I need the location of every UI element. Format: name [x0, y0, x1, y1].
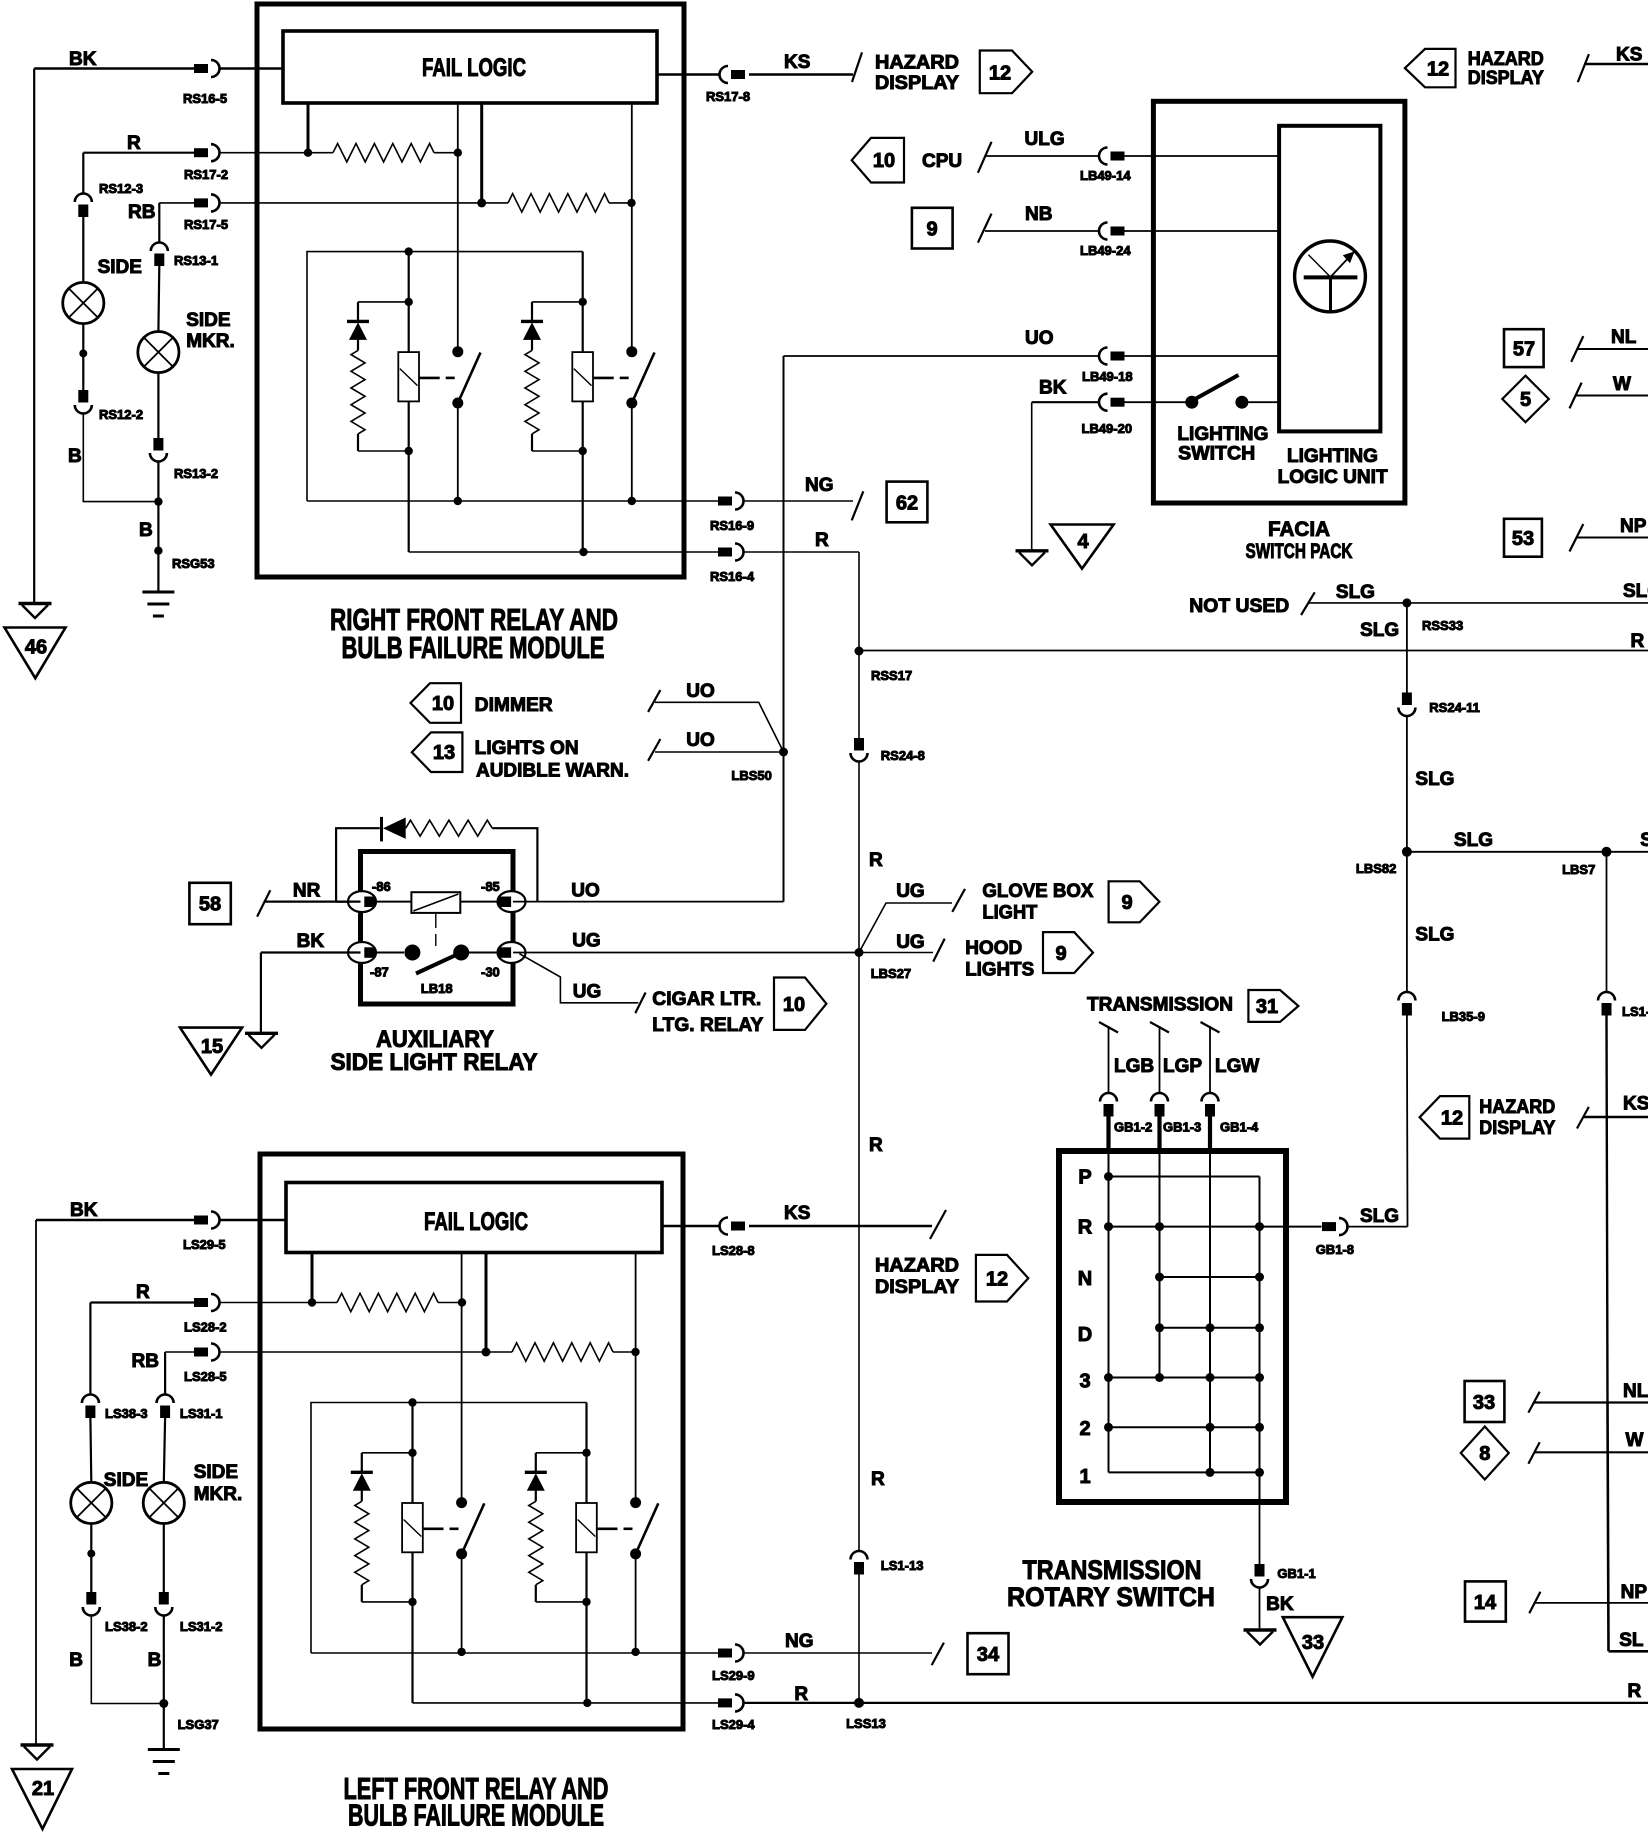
- svg-text:NB: NB: [1025, 204, 1052, 225]
- flag 12 (hazard display, left-pointing, top right): [1405, 49, 1456, 87]
- svg-text:LS28-5: LS28-5: [184, 1369, 227, 1384]
- svg-text:LS31-1: LS31-1: [180, 1406, 223, 1421]
- svg-text:33: 33: [1473, 1392, 1495, 1414]
- node (R1 right junction): [454, 149, 462, 157]
- svg-text:-30: -30: [481, 965, 500, 980]
- svg-text:SWITCH: SWITCH: [1178, 444, 1255, 465]
- connector RS17-5: [194, 194, 220, 211]
- svg-text:12: 12: [1441, 1108, 1463, 1130]
- node RSS17: [855, 647, 864, 656]
- svg-text:GB1-4: GB1-4: [1220, 1120, 1259, 1135]
- svg-text:GB1-8: GB1-8: [1316, 1242, 1354, 1257]
- svg-text:RS24-11: RS24-11: [1429, 700, 1480, 715]
- svg-text:10: 10: [432, 693, 454, 715]
- svg-text:62: 62: [896, 493, 918, 515]
- wire SL corner (to right edge): [1609, 1650, 1648, 1653]
- svg-text:GB1-2: GB1-2: [1114, 1120, 1152, 1135]
- row N: [1160, 1276, 1260, 1278]
- wire W (to right edge): [1576, 395, 1648, 397]
- connector LS29-5: [194, 1212, 220, 1229]
- ground triangle 33: [1283, 1617, 1343, 1677]
- ground triangle 21: [12, 1769, 72, 1829]
- svg-text:KS: KS: [1623, 1094, 1648, 1115]
- wire R trunk (RS24-8 to LBS27): [858, 762, 860, 953]
- svg-text:BULB FAILURE MODULE: BULB FAILURE MODULE: [342, 630, 605, 665]
- svg-text:CPU: CPU: [922, 151, 962, 172]
- relay switch contacts (LB18): [376, 952, 404, 954]
- connector RS12-3: [75, 194, 92, 218]
- FAIL LOGIC pin 3 (to resistor R2): [480, 103, 483, 203]
- wire NR: [264, 900, 361, 902]
- node RSG53: [154, 547, 162, 555]
- ground chevron (bottom BK): [21, 1745, 54, 1760]
- wire below SIDE MKR lamp (bottom): [163, 1524, 165, 1593]
- svg-text:FACIA: FACIA: [1268, 518, 1330, 541]
- svg-text:NOT USED: NOT USED: [1189, 596, 1289, 617]
- node (trunk1 on inner box top, bottom module): [408, 1398, 416, 1406]
- svg-text:R: R: [871, 1469, 885, 1490]
- relay box LB18 (auxiliary side light relay): [361, 852, 514, 1005]
- svg-text:W: W: [1613, 374, 1631, 395]
- svg-text:SIDE: SIDE: [104, 1470, 148, 1491]
- wire LGP: [1159, 1026, 1161, 1094]
- svg-text:12: 12: [1427, 59, 1449, 81]
- svg-text:R: R: [869, 850, 883, 871]
- slash (lights-on UO): [648, 739, 660, 761]
- node RSS33: [1402, 598, 1411, 607]
- connector RS13-1: [151, 243, 168, 267]
- svg-text:KS: KS: [784, 1203, 810, 1224]
- wire RB down to LS31-1: [164, 1352, 166, 1395]
- box 58: [189, 883, 230, 924]
- svg-text:SIDE LIGHT RELAY: SIDE LIGHT RELAY: [331, 1049, 538, 1076]
- connector LS1-13: [851, 1551, 868, 1575]
- earth ground (LSG37): [148, 1750, 180, 1774]
- svg-text:NG: NG: [805, 475, 834, 496]
- box 9 (NB source): [912, 208, 953, 249]
- svg-text:21: 21: [32, 1778, 54, 1800]
- lamp SIDE (left front): [71, 1482, 112, 1523]
- svg-text:W: W: [1626, 1430, 1644, 1451]
- svg-text:R: R: [1631, 631, 1645, 652]
- connector GB1-3: [1151, 1093, 1168, 1117]
- slash (KS continuation): [852, 52, 862, 82]
- node LBS27: [855, 948, 864, 957]
- wire to SIDE MKR lamp (bottom): [164, 1418, 165, 1482]
- wire NP (to right edge): [1577, 537, 1648, 539]
- svg-text:HAZARD: HAZARD: [1479, 1097, 1555, 1118]
- LIGHTING LOGIC UNIT box: [1279, 126, 1380, 432]
- svg-text:-86: -86: [372, 879, 391, 894]
- node (trunk1 on inner box top): [405, 247, 413, 255]
- wire UG (aux relay output): [513, 952, 859, 954]
- node below SIDE lamp: [79, 349, 87, 357]
- svg-text:13: 13: [433, 742, 455, 764]
- svg-text:B: B: [148, 1650, 162, 1671]
- wire BK (bottom module input): [36, 1219, 194, 1222]
- lighting switch contact b: [1235, 396, 1248, 409]
- svg-text:FAIL LOGIC: FAIL LOGIC: [422, 54, 526, 82]
- connector LS38-2: [83, 1592, 100, 1616]
- diamond 5: [1502, 376, 1549, 423]
- wire RB down to RS13-1: [158, 203, 160, 243]
- svg-text:-85: -85: [481, 879, 500, 894]
- svg-text:-87: -87: [370, 965, 389, 980]
- svg-text:LBS27: LBS27: [871, 966, 911, 981]
- svg-text:LOGIC UNIT: LOGIC UNIT: [1278, 467, 1388, 488]
- connector LS31-1: [157, 1395, 174, 1419]
- svg-text:R: R: [815, 530, 829, 551]
- svg-text:10: 10: [873, 150, 895, 172]
- svg-text:8: 8: [1479, 1443, 1490, 1465]
- svg-text:LGW: LGW: [1215, 1056, 1259, 1077]
- svg-text:ULG: ULG: [1025, 129, 1065, 150]
- relay K4 with diode and resistor (bottom module): [525, 1254, 659, 1703]
- connector RS17-8: [720, 66, 746, 83]
- node (R2 right junction): [627, 199, 635, 207]
- svg-text:34: 34: [977, 1644, 1000, 1666]
- node LBS7: [1602, 847, 1612, 857]
- svg-text:UO: UO: [686, 681, 715, 702]
- slash (NG continuation): [852, 491, 864, 520]
- wire KS (bottom module output): [662, 1225, 720, 1227]
- slash (KS bottom): [930, 1210, 946, 1239]
- connector GB1-4: [1202, 1093, 1219, 1117]
- svg-text:RS16-4: RS16-4: [710, 569, 755, 584]
- svg-text:BK: BK: [1266, 1594, 1294, 1615]
- svg-text:LS28-8: LS28-8: [712, 1243, 755, 1258]
- connector RS24-11: [1398, 693, 1415, 717]
- box 33: [1465, 1381, 1505, 1422]
- svg-text:15: 15: [201, 1036, 223, 1058]
- wire UO into facia pack: [784, 355, 1101, 357]
- wire NG (to 62): [743, 500, 853, 502]
- wire R (RS16-4 corner down): [858, 552, 860, 651]
- connector LS1-14 (cut at edge): [1598, 992, 1615, 1016]
- connector RS16-5: [194, 60, 220, 77]
- pin oval -85: [498, 891, 526, 912]
- svg-text:LS1-14: LS1-14: [1622, 1004, 1648, 1019]
- wire UG branch (glove box light): [859, 903, 952, 953]
- svg-text:B: B: [69, 1650, 83, 1671]
- svg-text:LBS7: LBS7: [1562, 862, 1595, 877]
- svg-text:LBS50: LBS50: [731, 768, 771, 783]
- connector LS29-9: [718, 1645, 744, 1662]
- node (R4 right junction): [631, 1348, 639, 1356]
- wire LGW: [1209, 1026, 1211, 1094]
- grid vertical v1 (LGB): [1108, 1152, 1110, 1472]
- lamp SIDE (right front): [63, 282, 104, 323]
- node (R3 right junction): [458, 1298, 466, 1306]
- slash (LGW): [1201, 1022, 1220, 1033]
- slash (dimmer UO): [648, 690, 660, 712]
- wire KS (top module output): [657, 73, 720, 75]
- wire to SIDE MKR lamp: [157, 266, 160, 332]
- slash (W bottom): [1528, 1442, 1539, 1464]
- FAIL LOGIC pin 1 (to resistor R1): [307, 103, 310, 153]
- svg-text:DISPLAY: DISPLAY: [875, 73, 959, 94]
- wire KS (top right): [1584, 63, 1648, 65]
- connector LS28-5: [194, 1344, 220, 1361]
- svg-text:10: 10: [783, 994, 805, 1016]
- svg-text:RSS17: RSS17: [871, 668, 912, 683]
- svg-text:SL: SL: [1619, 1630, 1644, 1651]
- svg-text:RS24-8: RS24-8: [881, 748, 925, 763]
- grid vertical v2 (LGP): [1159, 1152, 1161, 1378]
- svg-text:BK: BK: [70, 1200, 98, 1221]
- svg-text:BK: BK: [1039, 378, 1067, 399]
- svg-text:AUDIBLE WARN.: AUDIBLE WARN.: [476, 761, 629, 782]
- svg-text:HAZARD: HAZARD: [1468, 49, 1544, 70]
- svg-text:LIGHTS: LIGHTS: [965, 960, 1034, 981]
- ground triangle 15: [180, 1028, 242, 1075]
- resistor (aux relay loop): [406, 820, 493, 836]
- svg-text:SIDE: SIDE: [186, 310, 230, 331]
- svg-text:LS29-9: LS29-9: [712, 1668, 755, 1683]
- relay switch blade (LB18): [416, 952, 462, 973]
- svg-text:LS1-13: LS1-13: [881, 1558, 924, 1573]
- node (trunk2 on LS29-4 wire): [583, 1699, 591, 1707]
- wire BK down to ground 46: [33, 69, 35, 603]
- pin oval -86: [348, 891, 376, 912]
- FAIL LOGIC pin 1 (bottom, to resistor R3): [311, 1253, 314, 1303]
- wire B down and across: [83, 414, 158, 502]
- svg-text:SLG: SLG: [1623, 581, 1648, 602]
- node (R4 left junction): [482, 1348, 491, 1357]
- svg-text:UO: UO: [571, 881, 600, 902]
- relay coil (LB18): [376, 901, 412, 903]
- svg-text:R: R: [127, 133, 141, 154]
- diode (aux relay, pointing left): [380, 817, 383, 842]
- svg-text:LB18: LB18: [421, 981, 453, 996]
- connector LS31-2: [155, 1592, 172, 1616]
- grid vertical v3 (LGW): [1209, 1152, 1211, 1472]
- wire trunk1 corner to LS29-4: [413, 1702, 719, 1704]
- svg-text:R: R: [1628, 1681, 1642, 1702]
- svg-text:NL: NL: [1623, 1381, 1648, 1402]
- svg-text:KS: KS: [1616, 45, 1642, 66]
- diode-resistor loop wire (left side): [336, 828, 380, 901]
- svg-text:SLG: SLG: [1640, 830, 1648, 851]
- svg-text:RSG53: RSG53: [172, 556, 215, 571]
- wire R down to RS12-3: [82, 153, 84, 194]
- svg-text:9: 9: [1055, 943, 1066, 965]
- wire UO (dimmer row): [655, 702, 784, 752]
- slash (LGB): [1099, 1022, 1118, 1033]
- svg-text:R: R: [136, 1282, 150, 1303]
- svg-text:LSS13: LSS13: [846, 1716, 886, 1731]
- ground chevron (facia BK): [1016, 551, 1049, 566]
- svg-text:57: 57: [1513, 339, 1535, 361]
- FAIL LOGIC pin 3 (bottom, to resistor R4): [485, 1253, 488, 1353]
- wire below SIDE lamp: [82, 324, 84, 391]
- svg-text:12: 12: [989, 63, 1011, 85]
- resistor R4 (bulb-sense, bottom module): [486, 1351, 512, 1353]
- flag 12 (hazard display bottom, right-pointing): [976, 1255, 1028, 1302]
- wire to SIDE lamp (bottom): [89, 1418, 92, 1482]
- node (trunk2 on RS16-4 wire): [579, 548, 587, 556]
- flag 10 (cigar ltr ltg relay): [774, 978, 826, 1030]
- wire SLG vertical (RSS33 down to GB1-8 corner): [1406, 603, 1408, 693]
- svg-text:GB1-3: GB1-3: [1163, 1120, 1201, 1135]
- grid vertical v4 (common): [1259, 1177, 1261, 1506]
- svg-text:LB49-20: LB49-20: [1082, 421, 1133, 436]
- svg-text:MKR.: MKR.: [194, 1484, 243, 1505]
- row 3: [1109, 1377, 1260, 1379]
- wire R (top module input): [83, 152, 194, 154]
- wire trunk1 corner to RS16-4: [409, 551, 718, 553]
- svg-text:LIGHTING: LIGHTING: [1177, 424, 1268, 445]
- svg-text:14: 14: [1474, 1592, 1497, 1614]
- flag 31 (transmission): [1248, 990, 1298, 1022]
- wire to ground RSG53: [157, 462, 159, 592]
- transistor (lighting logic unit): [1295, 241, 1366, 312]
- wire SLG corner to GB1-8: [1346, 1226, 1408, 1228]
- svg-text:LB49-18: LB49-18: [1082, 369, 1133, 384]
- svg-text:LSG37: LSG37: [178, 1717, 219, 1732]
- svg-text:58: 58: [199, 894, 221, 916]
- flag 12 (hazard display, right-pointing): [980, 51, 1032, 94]
- slash (hood lights): [933, 939, 945, 962]
- svg-text:ROTARY SWITCH: ROTARY SWITCH: [1007, 1582, 1215, 1612]
- wire rail to LS29-9: [311, 1652, 718, 1654]
- slash (cigar ltr): [635, 993, 645, 1014]
- transmission rotary switch box: [1059, 1151, 1286, 1502]
- wire to ground LSG37: [163, 1616, 165, 1749]
- wire to SIDE lamp: [82, 217, 84, 282]
- svg-text:DIMMER: DIMMER: [475, 695, 553, 716]
- wire R trunk (RSS17 to RS24-8): [858, 651, 860, 738]
- svg-text:3: 3: [1079, 1371, 1090, 1393]
- svg-text:SWITCH PACK: SWITCH PACK: [1246, 540, 1353, 563]
- svg-text:RS16-9: RS16-9: [710, 518, 754, 533]
- wire UO (lights-on row): [655, 751, 784, 753]
- svg-text:SLG: SLG: [1454, 830, 1493, 851]
- svg-text:1: 1: [1079, 1466, 1090, 1488]
- wire BK (aux relay): [261, 951, 361, 953]
- connector LB49-20: [1099, 394, 1125, 411]
- relay K3 with diode and resistor (bottom module): [351, 1254, 485, 1703]
- flag 12 (hazard display, left-pointing, middle right): [1420, 1096, 1470, 1139]
- wire rail to RS16-9: [307, 500, 718, 502]
- slash (NB): [978, 214, 992, 243]
- flag 9 (hood lights): [1043, 932, 1093, 973]
- svg-text:9: 9: [1121, 892, 1132, 914]
- wire W (bottom, to right edge): [1534, 1451, 1648, 1453]
- wire UO vertical (facia to aux relay): [783, 356, 785, 902]
- svg-text:HAZARD: HAZARD: [875, 1256, 959, 1277]
- svg-text:DISPLAY: DISPLAY: [875, 1277, 959, 1298]
- slash (NL bottom): [1528, 1392, 1539, 1413]
- wire LGP into box: [1157, 1116, 1161, 1152]
- wire below SIDE lamp (bottom): [90, 1524, 92, 1593]
- row R (to GB1-8): [1109, 1226, 1322, 1228]
- connector RS16-9: [718, 493, 744, 510]
- svg-text:DISPLAY: DISPLAY: [1479, 1118, 1555, 1139]
- svg-text:GLOVE BOX: GLOVE BOX: [982, 881, 1093, 902]
- svg-text:NP: NP: [1621, 1582, 1648, 1603]
- slash (NP row): [1570, 524, 1584, 552]
- resistor R3 (bulb-sense, bottom module): [312, 1302, 337, 1304]
- slash (ULG): [978, 142, 992, 173]
- coil-switch dashed link: [435, 914, 437, 928]
- connector LS28-8: [720, 1218, 746, 1235]
- svg-text:D: D: [1078, 1324, 1092, 1346]
- wire R (LSS13 row to right edge): [743, 1702, 1648, 1704]
- wire SLG vertical below LBS82: [1406, 852, 1408, 993]
- svg-text:BK: BK: [297, 931, 325, 952]
- svg-text:GB1-1: GB1-1: [1277, 1566, 1315, 1581]
- svg-text:DISPLAY: DISPLAY: [1468, 68, 1544, 89]
- wire LGB into box: [1106, 1116, 1110, 1152]
- wire BK (top module input): [34, 67, 194, 70]
- wire NB inside facia pack: [1125, 230, 1280, 232]
- wire NL (bottom, to right edge): [1534, 1401, 1648, 1403]
- svg-text:CIGAR LTR.: CIGAR LTR.: [652, 989, 761, 1010]
- pin oval -30: [498, 942, 526, 963]
- wire SLG vertical (LBS7 down): [1606, 852, 1608, 993]
- wire UO inside facia pack: [1125, 355, 1280, 357]
- svg-text:4: 4: [1077, 531, 1089, 553]
- inner relay compartment box (bottom module): [311, 1403, 587, 1654]
- flag 10 (CPU, left-pointing): [852, 138, 904, 183]
- svg-text:SIDE: SIDE: [98, 257, 142, 278]
- relay K2 with diode and resistor (top module): [521, 103, 655, 552]
- destination box 34: [968, 1633, 1009, 1674]
- slash (NL row): [1571, 336, 1583, 362]
- FACIA SWITCH PACK box: [1153, 101, 1405, 503]
- lamp SIDE MKR (right front): [138, 332, 179, 373]
- svg-text:UG: UG: [896, 881, 925, 902]
- resistor R2 (bulb-sense, top module): [482, 202, 508, 204]
- svg-text:LB49-24: LB49-24: [1080, 243, 1131, 258]
- wire ULG: [985, 155, 1100, 157]
- svg-text:R: R: [794, 1684, 808, 1705]
- svg-text:2: 2: [1079, 1418, 1090, 1440]
- connector LS28-2: [194, 1294, 220, 1311]
- svg-text:RB: RB: [128, 202, 155, 223]
- svg-text:RB: RB: [132, 1351, 159, 1372]
- svg-text:SLG: SLG: [1336, 582, 1375, 603]
- loop wire (right side): [492, 828, 537, 901]
- svg-text:LTG. RELAY: LTG. RELAY: [652, 1015, 763, 1036]
- svg-text:BULB FAILURE MODULE: BULB FAILURE MODULE: [348, 1798, 604, 1832]
- svg-text:NL: NL: [1611, 327, 1637, 348]
- wire BK down to ground 15: [260, 953, 262, 1033]
- node LSS13: [854, 1698, 864, 1708]
- wire UG branch (hood lights): [859, 952, 933, 954]
- slash (NP bottom): [1529, 1592, 1540, 1614]
- ground triangle 4: [1051, 525, 1114, 569]
- svg-text:NP: NP: [1620, 516, 1647, 537]
- svg-text:SLG: SLG: [1360, 1206, 1399, 1227]
- slash (W row): [1570, 383, 1582, 409]
- wire v4 down to GB1-1: [1259, 1505, 1261, 1565]
- wire NL (to right edge): [1578, 348, 1648, 350]
- destination box 62: [887, 482, 928, 523]
- wire B down and across (bottom): [91, 1616, 164, 1704]
- module box U1 (right front relay and bulb failure module): [257, 4, 684, 577]
- svg-text:UG: UG: [896, 932, 925, 953]
- slash (NG bottom): [932, 1643, 944, 1666]
- svg-text:LGB: LGB: [1114, 1056, 1154, 1077]
- wire UO (aux relay output): [513, 901, 784, 903]
- connector GB1-8: [1322, 1218, 1348, 1235]
- earth ground (RSG53): [142, 592, 174, 616]
- svg-text:B: B: [68, 446, 82, 467]
- FAIL LOGIC block (top module): [283, 31, 657, 103]
- wire BK down to ground 21: [35, 1220, 37, 1744]
